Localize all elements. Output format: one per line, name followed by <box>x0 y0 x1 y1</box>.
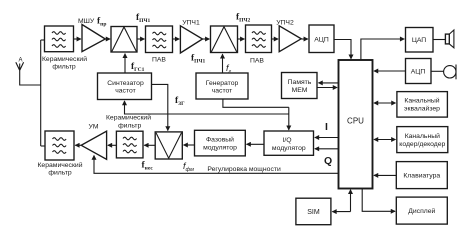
svg-text:fГС1: fГС1 <box>131 62 145 73</box>
svg-text:Канальный: Канальный <box>404 97 439 105</box>
svg-text:А: А <box>19 58 23 64</box>
svg-text:ЦАП: ЦАП <box>412 37 426 44</box>
svg-text:Q: Q <box>324 155 332 167</box>
svg-text:АЦП: АЦП <box>314 37 329 44</box>
svg-text:CPU: CPU <box>347 117 364 126</box>
svg-text:I/Q: I/Q <box>282 137 291 144</box>
svg-text:кодер/декодер: кодер/декодер <box>399 141 445 148</box>
svg-text:Фазовый: Фазовый <box>206 135 234 143</box>
svg-text:МШУ: МШУ <box>78 18 95 25</box>
svg-text:I: I <box>325 121 328 133</box>
svg-text:fПЧ2: fПЧ2 <box>236 13 250 24</box>
svg-text:УПЧ2: УПЧ2 <box>276 20 294 27</box>
svg-text:fЗГ: fЗГ <box>175 96 185 107</box>
svg-text:эквалайзер: эквалайзер <box>404 104 440 112</box>
svg-text:ПАВ: ПАВ <box>152 57 166 64</box>
svg-text:фильтр: фильтр <box>52 64 75 71</box>
svg-text:модулятор: модулятор <box>272 145 306 152</box>
svg-text:Керамический: Керамический <box>37 161 82 169</box>
svg-text:Генератор: Генератор <box>206 80 239 87</box>
svg-text:SIM: SIM <box>307 209 320 216</box>
svg-text:fПЧ1: fПЧ1 <box>136 13 150 24</box>
svg-text:Память: Память <box>288 79 312 86</box>
svg-text:фильтр: фильтр <box>118 123 141 130</box>
svg-text:модулятор: модулятор <box>203 145 237 152</box>
svg-text:Керамический: Керамический <box>106 114 151 122</box>
svg-text:Регулировка мощности: Регулировка мощности <box>207 166 281 173</box>
svg-text:ПАВ: ПАВ <box>250 58 264 65</box>
svg-text:Керамический: Керамический <box>42 55 87 63</box>
svg-text:УПЧ1: УПЧ1 <box>182 20 200 27</box>
svg-text:АЦП: АЦП <box>411 69 426 76</box>
svg-text:fнес: fнес <box>142 161 154 172</box>
svg-text:fПЧ1: fПЧ1 <box>191 54 205 65</box>
svg-text:МЕМ: МЕМ <box>292 87 308 94</box>
svg-text:Канальный: Канальный <box>405 132 440 140</box>
svg-text:частот: частот <box>212 88 233 95</box>
svg-text:Синтезатор: Синтезатор <box>107 80 144 87</box>
svg-text:fфм: fфм <box>183 161 194 173</box>
svg-text:фильтр: фильтр <box>48 170 71 177</box>
svg-text:Клавиатура: Клавиатура <box>403 173 440 180</box>
svg-text:УМ: УМ <box>89 124 99 131</box>
svg-text:частот: частот <box>115 88 136 95</box>
svg-text:Дисплей: Дисплей <box>408 207 435 215</box>
svg-text:fпр: fпр <box>97 17 106 28</box>
